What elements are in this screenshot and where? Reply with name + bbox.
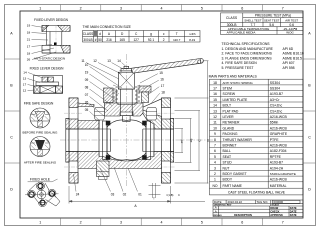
svg-text:18: 18 bbox=[161, 91, 165, 95]
svg-text:T: T bbox=[176, 32, 178, 36]
svg-text:5: 5 bbox=[201, 6, 203, 10]
svg-text:6: 6 bbox=[241, 221, 243, 225]
svg-text:5: 5 bbox=[201, 221, 203, 225]
svg-text:17: 17 bbox=[27, 45, 31, 49]
svg-text:11: 11 bbox=[213, 121, 217, 125]
svg-text:13: 13 bbox=[213, 109, 217, 113]
svg-text:1: 1 bbox=[39, 221, 41, 225]
svg-text:24: 24 bbox=[76, 192, 80, 196]
svg-text:4. FIRE SAFE DESIGN: 4. FIRE SAFE DESIGN bbox=[222, 61, 258, 65]
svg-text:BEFORE FIRE SEALING: BEFORE FIRE SEALING bbox=[23, 130, 58, 134]
svg-text:A182-F304: A182-F304 bbox=[270, 149, 287, 153]
svg-text:d: d bbox=[99, 32, 101, 36]
svg-text:18: 18 bbox=[27, 52, 31, 56]
svg-text:2. FACE TO FACE DIMENSIONS: 2. FACE TO FACE DIMENSIONS bbox=[222, 52, 273, 56]
svg-text:08: 08 bbox=[85, 86, 89, 90]
svg-text:7: 7 bbox=[282, 6, 284, 10]
svg-text:3: 3 bbox=[120, 6, 122, 10]
svg-text:10: 10 bbox=[85, 63, 89, 67]
svg-text:15: 15 bbox=[159, 71, 163, 75]
svg-text:CS+Znc: CS+Znc bbox=[270, 109, 283, 113]
svg-text:THE MAIN CONNECTION SIZE: THE MAIN CONNECTION SIZE bbox=[83, 25, 132, 29]
svg-text:2: 2 bbox=[80, 221, 82, 225]
svg-text:12: 12 bbox=[93, 59, 97, 63]
svg-text:A216-WCB: A216-WCB bbox=[270, 126, 288, 130]
svg-text:5. PRESSURE TEST: 5. PRESSURE TEST bbox=[222, 66, 254, 70]
svg-text:10: 10 bbox=[213, 126, 217, 130]
svg-text:CLASS: CLASS bbox=[226, 16, 238, 20]
svg-text:ANTI-STATIC DESIGN: ANTI-STATIC DESIGN bbox=[34, 57, 65, 61]
svg-text:A194-2H: A194-2H bbox=[270, 166, 284, 170]
svg-text:1: 1 bbox=[214, 178, 216, 182]
svg-text:2022.04.22: 2022.04.22 bbox=[228, 200, 243, 204]
svg-text:API 607: API 607 bbox=[283, 61, 295, 65]
svg-text:SS304: SS304 bbox=[270, 87, 280, 91]
svg-text:REV.NO: REV.NO bbox=[214, 215, 222, 217]
svg-text:09: 09 bbox=[85, 78, 89, 82]
svg-text:3: 3 bbox=[214, 166, 216, 170]
svg-text:BODY: BODY bbox=[223, 178, 233, 182]
svg-text:ASME B16.10: ASME B16.10 bbox=[283, 52, 304, 56]
svg-text:FIXED HOLE: FIXED HOLE bbox=[30, 178, 51, 182]
svg-text:14: 14 bbox=[213, 104, 217, 108]
svg-text:8: 8 bbox=[214, 138, 216, 142]
svg-text:12: 12 bbox=[23, 89, 27, 93]
svg-text:g: g bbox=[150, 32, 152, 36]
svg-text:LIMITED PLATE: LIMITED PLATE bbox=[223, 98, 249, 102]
svg-text:STEM: STEM bbox=[223, 87, 233, 91]
svg-text:AFTER FIRE SEALING: AFTER FIRE SEALING bbox=[24, 160, 57, 164]
svg-text:THRUST WASHER: THRUST WASHER bbox=[223, 138, 253, 142]
svg-text:API 598: API 598 bbox=[283, 66, 295, 70]
svg-text:13: 13 bbox=[107, 59, 111, 63]
svg-text:1. DESIGN AND MANUFACTURE: 1. DESIGN AND MANUFACTURE bbox=[222, 47, 274, 51]
svg-text:FIXED LEVER DESIGN: FIXED LEVER DESIGN bbox=[34, 18, 69, 22]
svg-text:165: 165 bbox=[120, 38, 126, 42]
svg-text:APPROVE: APPROVE bbox=[270, 213, 283, 217]
svg-text:14: 14 bbox=[23, 71, 27, 75]
svg-text:D: D bbox=[10, 188, 13, 192]
svg-text:6: 6 bbox=[241, 6, 243, 10]
svg-text:14: 14 bbox=[117, 59, 121, 63]
svg-text:ød: ød bbox=[180, 139, 184, 143]
svg-text:16: 16 bbox=[160, 78, 164, 82]
svg-text:C: C bbox=[308, 136, 311, 140]
svg-text:D: D bbox=[308, 188, 311, 192]
svg-text:26: 26 bbox=[85, 101, 89, 105]
svg-text:A193-B7: A193-B7 bbox=[270, 161, 283, 165]
svg-text:LEVER: LEVER bbox=[223, 115, 235, 119]
svg-text:DRAW: DRAW bbox=[270, 206, 278, 210]
svg-text:15: 15 bbox=[213, 98, 217, 102]
svg-text:A216-WCB: A216-WCB bbox=[270, 178, 288, 182]
svg-text:CS+Znc: CS+Znc bbox=[270, 104, 283, 108]
svg-text:4: 4 bbox=[161, 6, 163, 10]
svg-text:NO: NO bbox=[212, 184, 217, 188]
svg-text:7: 7 bbox=[282, 221, 284, 225]
svg-text:PART NAME: PART NAME bbox=[223, 184, 243, 188]
svg-text:API 6D: API 6D bbox=[283, 47, 294, 51]
svg-text:03: 03 bbox=[111, 192, 115, 196]
svg-text:RPTFE: RPTFE bbox=[270, 155, 282, 159]
svg-text:01: 01 bbox=[138, 192, 142, 196]
svg-text:APPLICABLE MEDIA: APPLICABLE MEDIA bbox=[227, 31, 256, 35]
svg-text:MAIN PARTS AND MATERIALS: MAIN PARTS AND MATERIALS bbox=[209, 75, 258, 79]
svg-text:05: 05 bbox=[85, 108, 89, 112]
svg-text:16: 16 bbox=[213, 92, 217, 96]
svg-text:MATERIAL: MATERIAL bbox=[270, 184, 287, 188]
svg-text:≈(1-B): ≈(1-B) bbox=[166, 193, 174, 197]
svg-text:17: 17 bbox=[23, 83, 27, 87]
svg-text:BOLT: BOLT bbox=[223, 104, 232, 108]
svg-text:NUT: NUT bbox=[223, 166, 230, 170]
svg-text:BALL: BALL bbox=[223, 149, 231, 153]
svg-text:8-19: 8-19 bbox=[189, 38, 195, 42]
svg-text:02: 02 bbox=[123, 192, 127, 196]
svg-text:2: 2 bbox=[214, 172, 216, 176]
svg-text:WOG: WOG bbox=[286, 31, 294, 35]
svg-text:n-Φh: n-Φh bbox=[189, 32, 196, 36]
svg-text:DATE: DATE bbox=[290, 209, 297, 213]
svg-text:1: 1 bbox=[39, 6, 41, 10]
svg-text:PTFE: PTFE bbox=[270, 138, 279, 142]
svg-text:SS304+GRAPHITE: SS304+GRAPHITE bbox=[270, 172, 296, 176]
svg-text:FIRE SAFE DESIGN: FIRE SAFE DESIGN bbox=[24, 101, 54, 105]
svg-text:øg: øg bbox=[189, 138, 193, 142]
svg-text:13: 13 bbox=[23, 77, 27, 81]
svg-text:C: C bbox=[10, 136, 13, 140]
svg-text:26: 26 bbox=[27, 58, 31, 62]
svg-text:PLAT PAD: PLAT PAD bbox=[223, 109, 239, 113]
svg-text:2: 2 bbox=[80, 6, 82, 10]
svg-text:RETAINER: RETAINER bbox=[223, 121, 240, 125]
svg-text:TECHNICAL SPECIFICATIONS: TECHNICAL SPECIFICATIONS bbox=[222, 42, 271, 46]
svg-text:3: 3 bbox=[120, 221, 122, 225]
svg-text:GRAPHITE: GRAPHITE bbox=[270, 132, 288, 136]
svg-text:ASME B16.5: ASME B16.5 bbox=[283, 56, 303, 60]
svg-text:12: 12 bbox=[213, 115, 217, 119]
svg-text:19: 19 bbox=[85, 71, 89, 75]
svg-text:50: 50 bbox=[98, 38, 102, 42]
svg-text:STUD: STUD bbox=[223, 161, 233, 165]
svg-text:127: 127 bbox=[134, 38, 140, 42]
svg-text:300LB: 300LB bbox=[83, 38, 92, 42]
svg-text:4: 4 bbox=[214, 161, 216, 165]
svg-text:CLASS: CLASS bbox=[83, 32, 93, 36]
svg-text:A193-B7: A193-B7 bbox=[270, 92, 283, 96]
svg-text:6: 6 bbox=[214, 149, 216, 153]
svg-text:CAST STEEL FLOATING BALL VALVE: CAST STEEL FLOATING BALL VALVE bbox=[228, 190, 286, 194]
svg-text:C: C bbox=[178, 193, 180, 197]
svg-text:18: 18 bbox=[27, 31, 31, 35]
svg-text:A: A bbox=[215, 209, 217, 213]
svg-text:A216-WCB: A216-WCB bbox=[270, 144, 288, 148]
svg-text:9: 9 bbox=[214, 132, 216, 136]
svg-text:18: 18 bbox=[213, 81, 217, 85]
svg-text:DESCRIPTION: DESCRIPTION bbox=[234, 213, 252, 217]
svg-text:07: 07 bbox=[85, 93, 89, 97]
svg-text:21: 21 bbox=[27, 38, 31, 42]
svg-text:3. FLANGE ENDS DIMENSIONS: 3. FLANGE ENDS DIMENSIONS bbox=[222, 56, 273, 60]
svg-text:SS304: SS304 bbox=[270, 81, 280, 85]
svg-text:92.1: 92.1 bbox=[148, 38, 154, 42]
svg-text:BODY GASKET: BODY GASKET bbox=[223, 172, 247, 176]
svg-text:CHECK: CHECK bbox=[270, 209, 279, 213]
svg-text:ANTI STATIC SPRING: ANTI STATIC SPRING bbox=[223, 81, 254, 85]
svg-text:GLAND: GLAND bbox=[223, 126, 235, 130]
svg-text:120.7: 120.7 bbox=[173, 38, 181, 42]
svg-text:FIXED LEVER DESIGN: FIXED LEVER DESIGN bbox=[30, 66, 65, 70]
svg-text:17: 17 bbox=[161, 84, 165, 88]
svg-text:TAG NO.: TAG NO. bbox=[257, 200, 269, 204]
svg-text:000000: 000000 bbox=[274, 200, 284, 204]
svg-text:PACKING: PACKING bbox=[223, 132, 238, 136]
svg-text:DATE: DATE bbox=[214, 200, 222, 204]
svg-text:PRESSURE TEST (MPa): PRESSURE TEST (MPa) bbox=[255, 14, 291, 18]
svg-text:A216-WCB: A216-WCB bbox=[270, 115, 288, 119]
svg-text:19: 19 bbox=[27, 24, 31, 28]
svg-text:DATE: DATE bbox=[290, 206, 297, 210]
svg-text:17: 17 bbox=[213, 87, 217, 91]
svg-text:7: 7 bbox=[214, 144, 216, 148]
svg-text:4: 4 bbox=[161, 221, 163, 225]
svg-text:2: 2 bbox=[163, 38, 165, 42]
svg-text:5: 5 bbox=[214, 155, 216, 159]
svg-text:5.6: 5.6 bbox=[269, 23, 274, 27]
svg-text:BONNET: BONNET bbox=[223, 144, 237, 148]
svg-text:#: # bbox=[95, 38, 97, 42]
svg-text:A3+Cr: A3+Cr bbox=[270, 98, 281, 102]
svg-text:216: 216 bbox=[106, 38, 112, 42]
svg-text:SEAT: SEAT bbox=[223, 155, 232, 159]
svg-text:SCREW: SCREW bbox=[223, 92, 236, 96]
svg-text:65Mn: 65Mn bbox=[270, 121, 279, 125]
svg-text:DATE: DATE bbox=[290, 213, 297, 217]
